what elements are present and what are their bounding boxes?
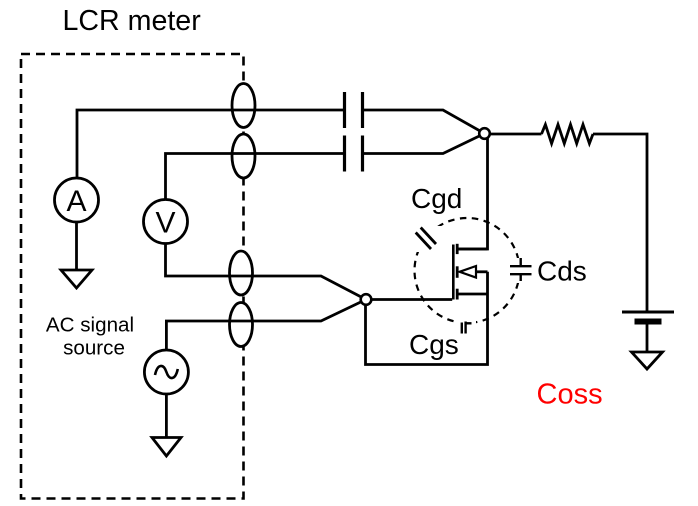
svg-text:AC signal: AC signal — [46, 314, 134, 337]
capacitor symbol Cds — [510, 258, 532, 281]
resistor R1 — [542, 125, 594, 144]
ammeter A body — [55, 178, 99, 222]
svg-text:A: A — [66, 185, 86, 218]
ground (battery) — [632, 352, 663, 369]
white patch under Cgs symbol — [456, 316, 476, 330]
wire: voltmeter bottom lead to gate node — [166, 244, 367, 300]
capacitor symbol Cgd — [416, 228, 436, 250]
wire: voltmeter top lead to coupling cap 2 — [166, 154, 345, 200]
battery V1 positive plate — [622, 311, 674, 314]
battery V1 negative plate — [635, 319, 662, 325]
svg-text:LCR meter: LCR meter — [63, 5, 202, 37]
terminal oval 2 (Hpot) — [232, 134, 255, 178]
svg-text:Cgd: Cgd — [411, 183, 462, 214]
svg-text:source: source — [63, 337, 125, 360]
ground (AC source) — [152, 438, 181, 457]
wire: ammeter top lead to coupling cap 1 — [77, 110, 344, 178]
wire: MOSFET source loop back to gate node — [366, 272, 488, 365]
wire: resistor to battery — [593, 134, 647, 312]
MOSFET Q1 — [453, 244, 487, 300]
wire: AC source top lead to gate node — [166, 300, 366, 351]
white patch under Cds symbol — [508, 258, 534, 283]
wire: battery to ground — [646, 324, 649, 352]
node: drain junction — [479, 128, 490, 139]
svg-text:V: V — [155, 207, 175, 240]
wire: ammeter to ground — [75, 222, 78, 270]
svg-text:Cgs: Cgs — [409, 329, 459, 360]
wire: cap C2 to drain node — [363, 134, 485, 154]
wire: drain node down to MOSFET drain — [458, 136, 488, 249]
wire: gate node to MOSFET gate — [366, 298, 452, 301]
ground (ammeter) — [61, 270, 92, 288]
capacitor C2 left plate — [343, 136, 346, 172]
svg-text:Coss: Coss — [537, 379, 603, 411]
capacitor C2 right plate — [361, 136, 364, 172]
terminal oval 4 (Lcur) — [230, 303, 253, 347]
capacitor symbol Cgs — [462, 322, 472, 334]
svg-text:Cds: Cds — [537, 256, 587, 287]
wire: drain node to resistor — [485, 133, 542, 136]
wire: AC source to ground — [165, 394, 168, 438]
wire: cap C1 to drain node — [363, 110, 485, 134]
AC source sine glyph — [155, 366, 178, 378]
AC source body — [144, 350, 188, 394]
dashed device outline circle — [415, 218, 520, 323]
capacitor C1 right plate — [361, 92, 364, 128]
capacitor C1 left plate — [343, 92, 346, 128]
white patch under Cgd symbol — [414, 226, 442, 252]
voltmeter V body — [144, 200, 188, 244]
terminal oval 1 (Hcur) — [232, 84, 255, 128]
LCR meter enclosure (dashed box) — [21, 54, 244, 499]
node: gate junction — [361, 294, 372, 305]
terminal oval 3 (Lpot) — [230, 251, 253, 295]
